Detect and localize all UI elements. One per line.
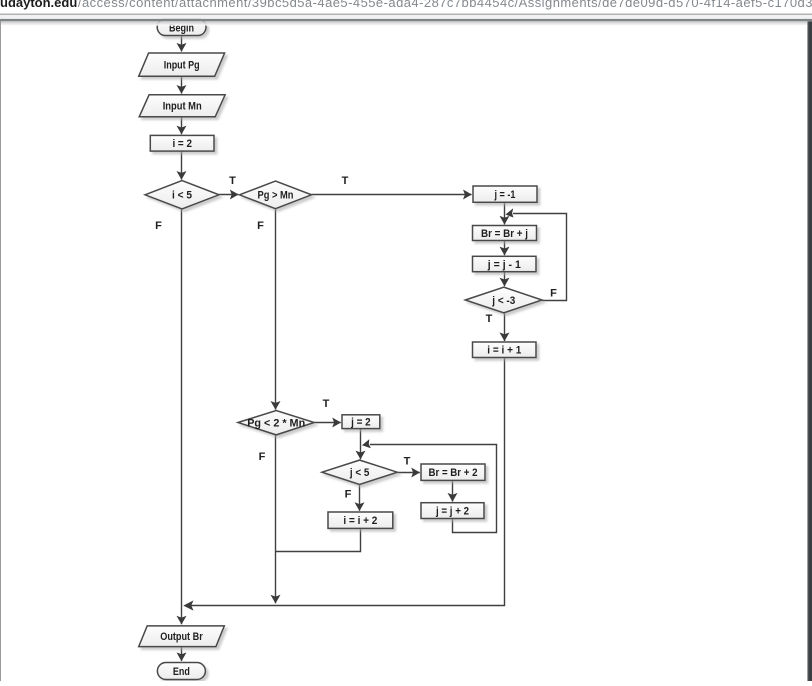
svg-text:T: T [229,175,236,187]
svg-text:i = 2: i = 2 [172,138,192,150]
svg-text:j = -1: j = -1 [494,189,516,201]
svg-text:j < -3: j < -3 [491,295,515,307]
svg-text:T: T [486,313,493,325]
svg-text:End: End [173,666,190,678]
svg-text:udayton.edu: udayton.edu [0,0,77,10]
svg-text:j < 5: j < 5 [349,467,369,479]
svg-text:Output Br: Output Br [160,631,203,643]
svg-text:T: T [404,456,411,468]
svg-text:F: F [550,288,557,300]
svg-text:Br = Br + 2: Br = Br + 2 [429,467,478,479]
svg-text:F: F [257,220,264,232]
svg-text:F: F [259,451,266,463]
svg-text:Br = Br + j: Br = Br + j [481,228,528,240]
svg-text:F: F [155,220,162,232]
svg-text:j = j + 2: j = j + 2 [435,506,469,518]
svg-text:i = i + 1: i = i + 1 [487,345,521,357]
svg-text:j = 2: j = 2 [350,417,370,429]
svg-text:Pg > Mn: Pg > Mn [258,190,294,202]
svg-text:i < 5: i < 5 [172,190,192,202]
svg-text:Input Pg: Input Pg [164,60,200,72]
svg-text:/access/content/attachment/39b: /access/content/attachment/39bc5d5a-4ae5… [78,0,812,10]
svg-text:Pg < 2 * Mn: Pg < 2 * Mn [247,417,305,429]
svg-text:F: F [345,489,352,501]
svg-text:j = j - 1: j = j - 1 [487,259,521,271]
svg-text:T: T [342,175,349,187]
svg-text:T: T [323,398,330,410]
svg-text:Input Mn: Input Mn [163,101,202,113]
svg-text:i = i + 2: i = i + 2 [343,515,377,527]
